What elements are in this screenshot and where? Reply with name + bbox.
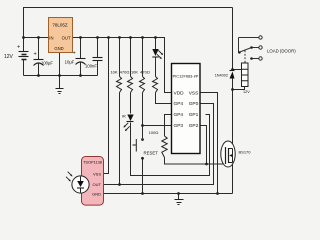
junction diode/coil bottom node [231, 88, 234, 91]
battery B1 12V [19, 52, 29, 60]
wire GP2 to gate node [200, 126, 207, 165]
relay K1 coil [242, 63, 249, 87]
wire battery bottom lead [23, 60, 25, 76]
wire v3 470R1 / IR LED line [131, 38, 210, 176]
junction v1/+5V node [107, 36, 110, 39]
ground (main) [175, 200, 184, 205]
svg-text:100µF: 100µF [41, 61, 53, 66]
svg-text:10µF: 10µF [65, 60, 75, 65]
wire regulator GND lead [59, 53, 61, 89]
svg-text:78L05Z: 78L05Z [52, 23, 68, 28]
wire 10uF leads [80, 38, 82, 76]
LED D1 indicator [152, 49, 163, 59]
svg-text:1N4002: 1N4002 [215, 74, 228, 78]
wire +12V top rail [24, 8, 233, 52]
svg-text:+: + [34, 52, 37, 58]
resistor R2 470R [128, 77, 133, 93]
svg-text:RESET: RESET [144, 150, 159, 155]
junction RESET/ground bus [141, 192, 144, 195]
switch arm [239, 38, 252, 53]
svg-text:GND: GND [54, 46, 63, 51]
junction R1/TSOP OUT node [118, 183, 121, 186]
junction ground symbol/ground bus [177, 192, 180, 195]
svg-text:PIC12F683-I/P: PIC12F683-I/P [173, 74, 199, 79]
capacitor C3 100nF [93, 58, 103, 61]
svg-text:10K: 10K [110, 70, 117, 75]
svg-text:VSS: VSS [93, 171, 101, 176]
capacitor C2 10uF [76, 59, 86, 65]
wire v2 10K1 line [119, 38, 121, 185]
LED D2 IR emitter [123, 115, 133, 132]
wire ground symbol tap [178, 194, 180, 200]
junction GP2/gate node [205, 163, 208, 166]
junction R4/+5V node [154, 36, 157, 39]
svg-text:+: + [17, 45, 20, 51]
svg-text:OUT: OUT [93, 182, 102, 187]
svg-text:470Ω: 470Ω [140, 70, 150, 75]
wire coil bottom tee [233, 87, 245, 90]
wire ground bus [104, 193, 233, 195]
diode D3 1N4002 [230, 71, 235, 79]
junction R3/+5V node [141, 36, 144, 39]
transistor Q1 BS170 MOSFET [221, 141, 235, 167]
svg-text:OUT: OUT [62, 35, 71, 40]
resistor R4 470R [153, 77, 158, 93]
wire GP5 to 100R [165, 115, 226, 165]
resistor R1 10K [117, 77, 122, 93]
wire v5 LED 470R2 line [156, 38, 172, 104]
svg-text:IR: IR [122, 115, 126, 119]
svg-text:10K: 10K [131, 70, 138, 75]
junction VSS/ground bus [216, 192, 219, 195]
resistor R5 100R [162, 136, 167, 158]
svg-text:GP3: GP3 [174, 123, 184, 129]
wire 100nF leads [97, 38, 99, 76]
IR receiver U3 TSOP1138 [66, 157, 104, 206]
capacitor C1 100uF [34, 60, 44, 66]
wire +5V rail [73, 38, 172, 93]
photodiode in TSOP [72, 176, 89, 193]
svg-text:LOAD (DOOR): LOAD (DOOR) [267, 48, 296, 53]
wire regulator IN net [24, 37, 49, 39]
svg-text:TSOP1138: TSOP1138 [83, 160, 102, 165]
svg-text:GP1: GP1 [189, 112, 199, 118]
junction R2/+5V node [129, 36, 132, 39]
junction R1/+5V node [118, 36, 121, 39]
junction C1/0V rail [37, 74, 40, 77]
ground (power section) [56, 89, 64, 94]
wire GP3 net [143, 125, 172, 127]
wire coil top tee [233, 69, 242, 71]
svg-text:100nF: 100nF [85, 64, 97, 69]
relay linkage (dashed) [244, 51, 246, 63]
svg-text:GP2: GP2 [189, 123, 199, 129]
relay switch contacts [239, 36, 263, 60]
regulator U1 78L05 [49, 18, 73, 53]
wire MOSFET source [232, 163, 234, 194]
svg-text:VSS: VSS [189, 90, 199, 96]
junction C3/+5V node [96, 36, 99, 39]
wire GP0 net to TSOP OUT [104, 104, 214, 185]
svg-text:GP0: GP0 [189, 101, 199, 107]
junction regulator GND/0V rail [58, 74, 61, 77]
svg-text:+: + [73, 51, 76, 57]
junction GP3/R3/RESET node [141, 124, 144, 127]
junction C1/IN node [37, 36, 40, 39]
svg-text:GND: GND [92, 192, 101, 197]
junction battery/IN node [22, 36, 25, 39]
svg-text:12V: 12V [243, 90, 250, 94]
svg-text:VDD: VDD [174, 90, 185, 96]
wire MOSFET drain [232, 90, 234, 149]
svg-text:GP4: GP4 [174, 101, 184, 107]
wire relay/diode drop from +12V [232, 8, 234, 142]
svg-text:BS170: BS170 [239, 150, 252, 155]
junction C2/+5V node [79, 36, 82, 39]
wire VSS to ground [200, 93, 218, 194]
wire 100uF leads [38, 38, 40, 76]
IC U2 PIC12F683 [172, 64, 201, 154]
svg-text:IN: IN [49, 35, 53, 40]
junction C2/0V rail [79, 74, 82, 77]
junction diode/coil top node [231, 68, 234, 71]
pushbutton RESET [133, 138, 144, 160]
svg-text:470Ω: 470Ω [120, 70, 130, 75]
resistor R3 10K [140, 77, 145, 93]
wire 0V bottom rail [24, 75, 98, 77]
svg-text:100Ω: 100Ω [149, 130, 159, 135]
svg-text:12V: 12V [4, 54, 14, 60]
wire v1 +5V to TSOP Vs [104, 38, 109, 174]
wire v4 10K2 / reset line [142, 38, 144, 194]
svg-text:GP4: GP4 [174, 112, 184, 118]
